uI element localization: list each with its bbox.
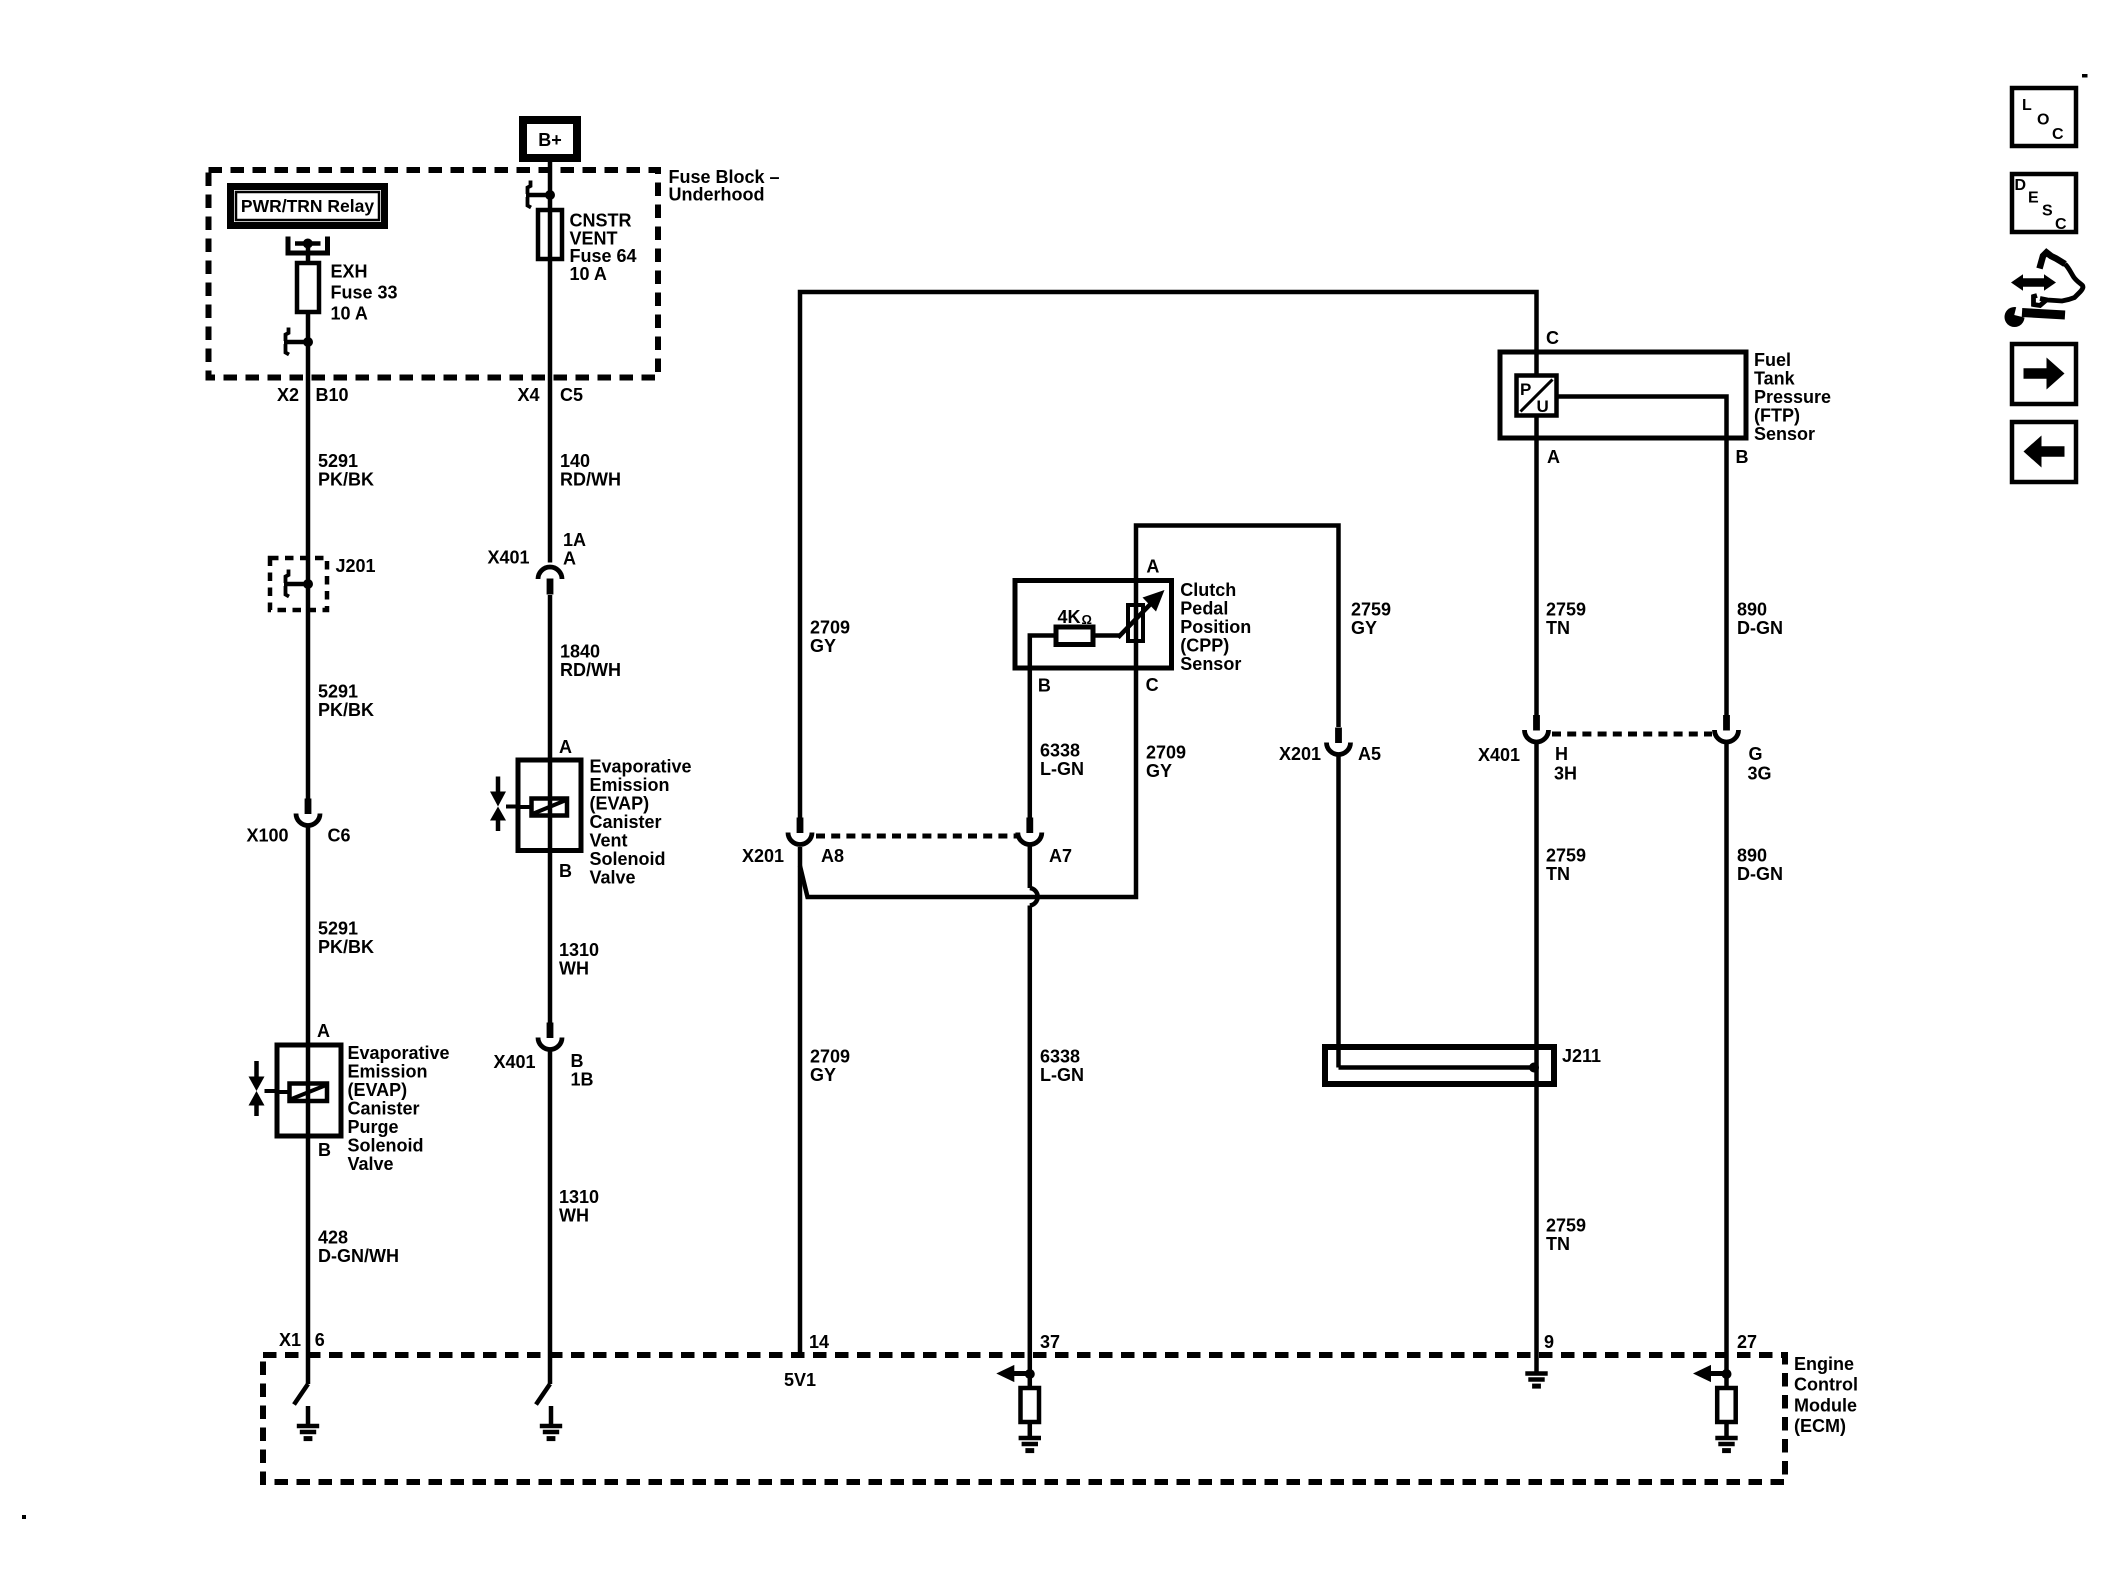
wire: FTP B lead bbox=[1557, 397, 1727, 716]
harness crossover dashed A8-A7 bbox=[816, 834, 1018, 839]
svg-text:L-GN: L-GN bbox=[1040, 1065, 1084, 1085]
svg-text:P: P bbox=[1520, 380, 1531, 399]
svg-text:2709: 2709 bbox=[810, 618, 850, 638]
svg-text:5291: 5291 bbox=[318, 682, 358, 702]
svg-text:X201: X201 bbox=[742, 846, 784, 866]
svg-text:C: C bbox=[1146, 675, 1159, 695]
connector X401 pin H/3H bbox=[1525, 715, 1549, 742]
svg-text:A7: A7 bbox=[1049, 846, 1072, 866]
svg-text:890: 890 bbox=[1737, 846, 1767, 866]
connector X201-G pin G/3G bbox=[1715, 715, 1739, 742]
LOC nav button bbox=[2012, 88, 2076, 146]
svg-text:1A: 1A bbox=[563, 530, 586, 550]
svg-text:6338: 6338 bbox=[1040, 1047, 1080, 1067]
ground (ECM pin 9) bbox=[1525, 1374, 1547, 1387]
svg-text:Fuel: Fuel bbox=[1754, 350, 1791, 370]
svg-text:X4: X4 bbox=[518, 385, 540, 405]
svg-text:A: A bbox=[563, 549, 576, 569]
wire: X100 to EVAP purge solenoid and ECM bbox=[306, 828, 311, 1385]
connector X401 pin 1A/A bbox=[538, 567, 562, 595]
wire hop over 2709 branch bbox=[1030, 888, 1038, 906]
ECM driver switch pin 6 bbox=[294, 1384, 308, 1405]
svg-text:(CPP): (CPP) bbox=[1180, 636, 1229, 656]
svg-text:B: B bbox=[571, 1051, 584, 1071]
svg-text:B: B bbox=[559, 861, 572, 881]
svg-text:X1: X1 bbox=[279, 1330, 301, 1350]
fuse block terminal tap (fuse 33 output) bbox=[284, 328, 313, 355]
shop/service icon (arrows, car, wrench) bbox=[2005, 253, 2083, 328]
svg-text:GY: GY bbox=[810, 636, 836, 656]
svg-text:Valve: Valve bbox=[590, 868, 636, 888]
svg-text:GY: GY bbox=[810, 1065, 836, 1085]
svg-text:GY: GY bbox=[1146, 761, 1172, 781]
svg-text:2759: 2759 bbox=[1546, 600, 1586, 620]
svg-text:A5: A5 bbox=[1358, 744, 1381, 764]
svg-text:2759: 2759 bbox=[1351, 600, 1391, 620]
svg-text:PK/BK: PK/BK bbox=[318, 470, 374, 490]
harness crossover dashed H-G bbox=[1552, 732, 1712, 737]
svg-text:D-GN/WH: D-GN/WH bbox=[318, 1246, 399, 1266]
wire: X401 A to EVAP vent solenoid bbox=[548, 595, 553, 1023]
svg-text:Vent: Vent bbox=[590, 831, 628, 851]
svg-text:C5: C5 bbox=[560, 385, 583, 405]
svg-text:X201: X201 bbox=[1279, 744, 1321, 764]
relay contact bracket bbox=[288, 237, 328, 254]
svg-text:5V1: 5V1 bbox=[784, 1370, 816, 1390]
svg-text:10 A: 10 A bbox=[331, 304, 368, 324]
svg-text:A: A bbox=[559, 737, 572, 757]
svg-text:Pedal: Pedal bbox=[1180, 599, 1228, 619]
svg-text:D: D bbox=[2015, 177, 2027, 194]
node: pin 37 pullup junction bbox=[1025, 1369, 1035, 1379]
svg-text:TN: TN bbox=[1546, 1234, 1570, 1254]
connector X201 pin A7 bbox=[1018, 818, 1042, 845]
svg-text:(ECM): (ECM) bbox=[1794, 1416, 1846, 1436]
svg-text:WH: WH bbox=[559, 959, 589, 979]
svg-text:Canister: Canister bbox=[348, 1099, 420, 1119]
vent valve symbol bbox=[496, 777, 501, 793]
svg-text:5291: 5291 bbox=[318, 919, 358, 939]
svg-text:3H: 3H bbox=[1554, 764, 1577, 784]
back nav button bbox=[2012, 422, 2076, 482]
DESC nav button bbox=[2012, 174, 2076, 232]
svg-text:TN: TN bbox=[1546, 864, 1570, 884]
wire: A7 down to ECM pin 37 with hop bbox=[1028, 847, 1033, 889]
fuse CNSTR VENT Fuse 64 10A bbox=[538, 210, 562, 259]
svg-text:WH: WH bbox=[559, 1206, 589, 1226]
splice J211 bbox=[1325, 1047, 1554, 1084]
CPP internal 4K resistor bbox=[1056, 627, 1093, 645]
svg-text:(EVAP): (EVAP) bbox=[590, 794, 650, 814]
svg-text:Sensor: Sensor bbox=[1754, 424, 1815, 444]
svg-text:B+: B+ bbox=[538, 130, 562, 150]
svg-text:A: A bbox=[1547, 447, 1560, 467]
wire: CPP A-C element through pot bbox=[1134, 581, 1139, 669]
svg-text:Control: Control bbox=[1794, 1375, 1858, 1395]
resistor (ECM pullup pin 27) bbox=[1724, 1374, 1729, 1388]
svg-text:2759: 2759 bbox=[1546, 846, 1586, 866]
svg-text:A: A bbox=[1146, 557, 1159, 577]
wire: tap below A8 to CPP sensor pin C bbox=[800, 668, 1136, 897]
connector X201 pin A8 bbox=[788, 818, 812, 845]
svg-text:1310: 1310 bbox=[559, 940, 599, 960]
svg-text:37: 37 bbox=[1040, 1332, 1060, 1352]
ECM driver switch (vent feed) bbox=[536, 1384, 550, 1405]
svg-text:U: U bbox=[1537, 397, 1549, 416]
svg-text:X100: X100 bbox=[247, 826, 289, 846]
svg-text:B10: B10 bbox=[316, 385, 349, 405]
svg-text:G: G bbox=[1749, 744, 1763, 764]
svg-text:GY: GY bbox=[1351, 618, 1377, 638]
wire: X401 H to ECM pin 9 bbox=[1534, 744, 1539, 1372]
svg-text:3G: 3G bbox=[1748, 764, 1772, 784]
svg-text:J201: J201 bbox=[336, 556, 376, 576]
svg-text:Solenoid: Solenoid bbox=[590, 849, 666, 869]
svg-text:27: 27 bbox=[1737, 1332, 1757, 1352]
page corner marks bbox=[2082, 74, 2088, 78]
svg-text:Evaporative: Evaporative bbox=[590, 757, 692, 777]
svg-text:Tank: Tank bbox=[1754, 369, 1796, 389]
svg-text:L-GN: L-GN bbox=[1040, 759, 1084, 779]
svg-text:B: B bbox=[1736, 447, 1749, 467]
svg-text:Sensor: Sensor bbox=[1180, 654, 1241, 674]
svg-text:B: B bbox=[318, 1140, 331, 1160]
svg-text:C6: C6 bbox=[328, 826, 351, 846]
battery feed B+ terminal bbox=[523, 120, 577, 158]
svg-text:B: B bbox=[1038, 676, 1051, 696]
svg-text:Canister: Canister bbox=[590, 812, 662, 832]
resistor (ECM pullup pin 37) bbox=[1028, 1374, 1033, 1388]
svg-text:2709: 2709 bbox=[1146, 743, 1186, 763]
connector X201 pin A5 bbox=[1327, 728, 1351, 755]
connector X100 pin C6 bbox=[296, 799, 320, 826]
svg-text:1840: 1840 bbox=[560, 642, 600, 662]
svg-text:Module: Module bbox=[1794, 1395, 1857, 1415]
svg-text:EXH: EXH bbox=[331, 262, 368, 282]
svg-text:S: S bbox=[2042, 203, 2053, 220]
ground (ECM pin 37 pulldown) bbox=[1019, 1438, 1041, 1451]
svg-text:6338: 6338 bbox=[1040, 741, 1080, 761]
svg-text:9: 9 bbox=[1544, 1332, 1554, 1352]
svg-text:RD/WH: RD/WH bbox=[560, 660, 621, 680]
svg-text:1B: 1B bbox=[571, 1070, 594, 1090]
ground (ECM internal) bbox=[549, 1406, 554, 1424]
svg-text:A8: A8 bbox=[821, 846, 844, 866]
svg-text:C: C bbox=[1546, 328, 1559, 348]
svg-text:Underhood: Underhood bbox=[669, 185, 765, 205]
fuse EXH Fuse 33 10A bbox=[297, 263, 319, 312]
node: pin 27 pullup junction bbox=[1722, 1369, 1732, 1379]
svg-text:D-GN: D-GN bbox=[1737, 864, 1783, 884]
svg-text:(EVAP): (EVAP) bbox=[348, 1080, 408, 1100]
svg-text:O: O bbox=[2037, 112, 2049, 129]
svg-text:Position: Position bbox=[1180, 617, 1251, 637]
svg-text:PK/BK: PK/BK bbox=[318, 700, 374, 720]
svg-text:Valve: Valve bbox=[348, 1154, 394, 1174]
svg-text:6: 6 bbox=[315, 1330, 325, 1350]
svg-text:H: H bbox=[1555, 744, 1568, 764]
wire: B+ down through CNSTR VENT fuse to X4 C5 bbox=[548, 158, 553, 563]
PWR/TRN relay K1 bbox=[231, 187, 385, 226]
wire: ECM pin 14 5V bus up and across to FTP C bbox=[798, 847, 803, 1355]
svg-text:TN: TN bbox=[1546, 618, 1570, 638]
svg-text:(FTP): (FTP) bbox=[1754, 406, 1800, 426]
svg-text:890: 890 bbox=[1737, 600, 1767, 620]
svg-text:C: C bbox=[2052, 126, 2064, 143]
svg-text:2759: 2759 bbox=[1546, 1216, 1586, 1236]
fuse block underhood dashed box bbox=[209, 170, 659, 378]
svg-text:Evaporative: Evaporative bbox=[348, 1043, 450, 1063]
svg-text:J211: J211 bbox=[1562, 1046, 1601, 1066]
svg-text:C: C bbox=[2055, 216, 2067, 233]
svg-text:1310: 1310 bbox=[559, 1187, 599, 1207]
svg-text:4K: 4K bbox=[1058, 607, 1081, 627]
svg-text:X2: X2 bbox=[277, 385, 299, 405]
svg-text:10 A: 10 A bbox=[570, 264, 607, 284]
svg-text:2709: 2709 bbox=[810, 1047, 850, 1067]
svg-text:Clutch: Clutch bbox=[1180, 580, 1236, 600]
svg-text:Pressure: Pressure bbox=[1754, 387, 1831, 407]
wire: fuse 33 down to X2 B10 and on to X100 bbox=[306, 312, 311, 799]
svg-text:Engine: Engine bbox=[1794, 1354, 1854, 1374]
wire: CPP B to X201 A7 bbox=[1028, 668, 1033, 818]
wire: X401 B to ECM bbox=[548, 1052, 553, 1385]
svg-text:Ω: Ω bbox=[1082, 612, 1092, 627]
wire: relay to fuse 33 bbox=[306, 244, 311, 264]
svg-text:PWR/TRN Relay: PWR/TRN Relay bbox=[241, 196, 374, 216]
wire: A5 down to splice J211 bbox=[1336, 757, 1341, 1068]
svg-text:L: L bbox=[2022, 97, 2032, 114]
fuel tank pressure sensor box bbox=[1500, 352, 1746, 438]
svg-text:14: 14 bbox=[809, 1332, 829, 1352]
CPP potentiometer bbox=[1128, 605, 1143, 641]
svg-text:X401: X401 bbox=[494, 1052, 536, 1072]
svg-text:D-GN: D-GN bbox=[1737, 618, 1783, 638]
svg-text:Fuse 33: Fuse 33 bbox=[331, 283, 398, 303]
svg-text:Solenoid: Solenoid bbox=[348, 1136, 424, 1156]
svg-text:Emission: Emission bbox=[590, 775, 670, 795]
svg-text:140: 140 bbox=[560, 451, 590, 471]
svg-text:428: 428 bbox=[318, 1228, 348, 1248]
connector X401 pin B/1B bbox=[538, 1023, 562, 1050]
svg-text:A: A bbox=[317, 1021, 330, 1041]
FTP P/U transducer symbol bbox=[1517, 376, 1557, 416]
wire: FTP A to X401 H bbox=[1534, 416, 1539, 716]
svg-text:Emission: Emission bbox=[348, 1062, 428, 1082]
svg-text:Purge: Purge bbox=[348, 1117, 399, 1137]
wire: CPP A to X201 A5 bbox=[1136, 526, 1339, 728]
forward nav button bbox=[2012, 344, 2076, 404]
splice J201 bbox=[270, 558, 327, 610]
purge valve symbol bbox=[254, 1061, 259, 1077]
svg-text:RD/WH: RD/WH bbox=[560, 470, 621, 490]
clutch pedal position sensor box bbox=[1015, 581, 1172, 669]
svg-text:PK/BK: PK/BK bbox=[318, 937, 374, 957]
svg-text:X401: X401 bbox=[1478, 745, 1520, 765]
svg-text:E: E bbox=[2028, 190, 2039, 207]
fuse block terminal tap (B+ feed) bbox=[526, 181, 555, 208]
engine control module dashed box bbox=[263, 1355, 1785, 1482]
ground (ECM internal, pin 6) bbox=[306, 1406, 311, 1424]
svg-text:5291: 5291 bbox=[318, 451, 358, 471]
svg-text:X401: X401 bbox=[488, 548, 530, 568]
ground (ECM pin 27 pulldown) bbox=[1715, 1438, 1737, 1451]
wire: G to ECM pin 27 bbox=[1724, 744, 1729, 1376]
